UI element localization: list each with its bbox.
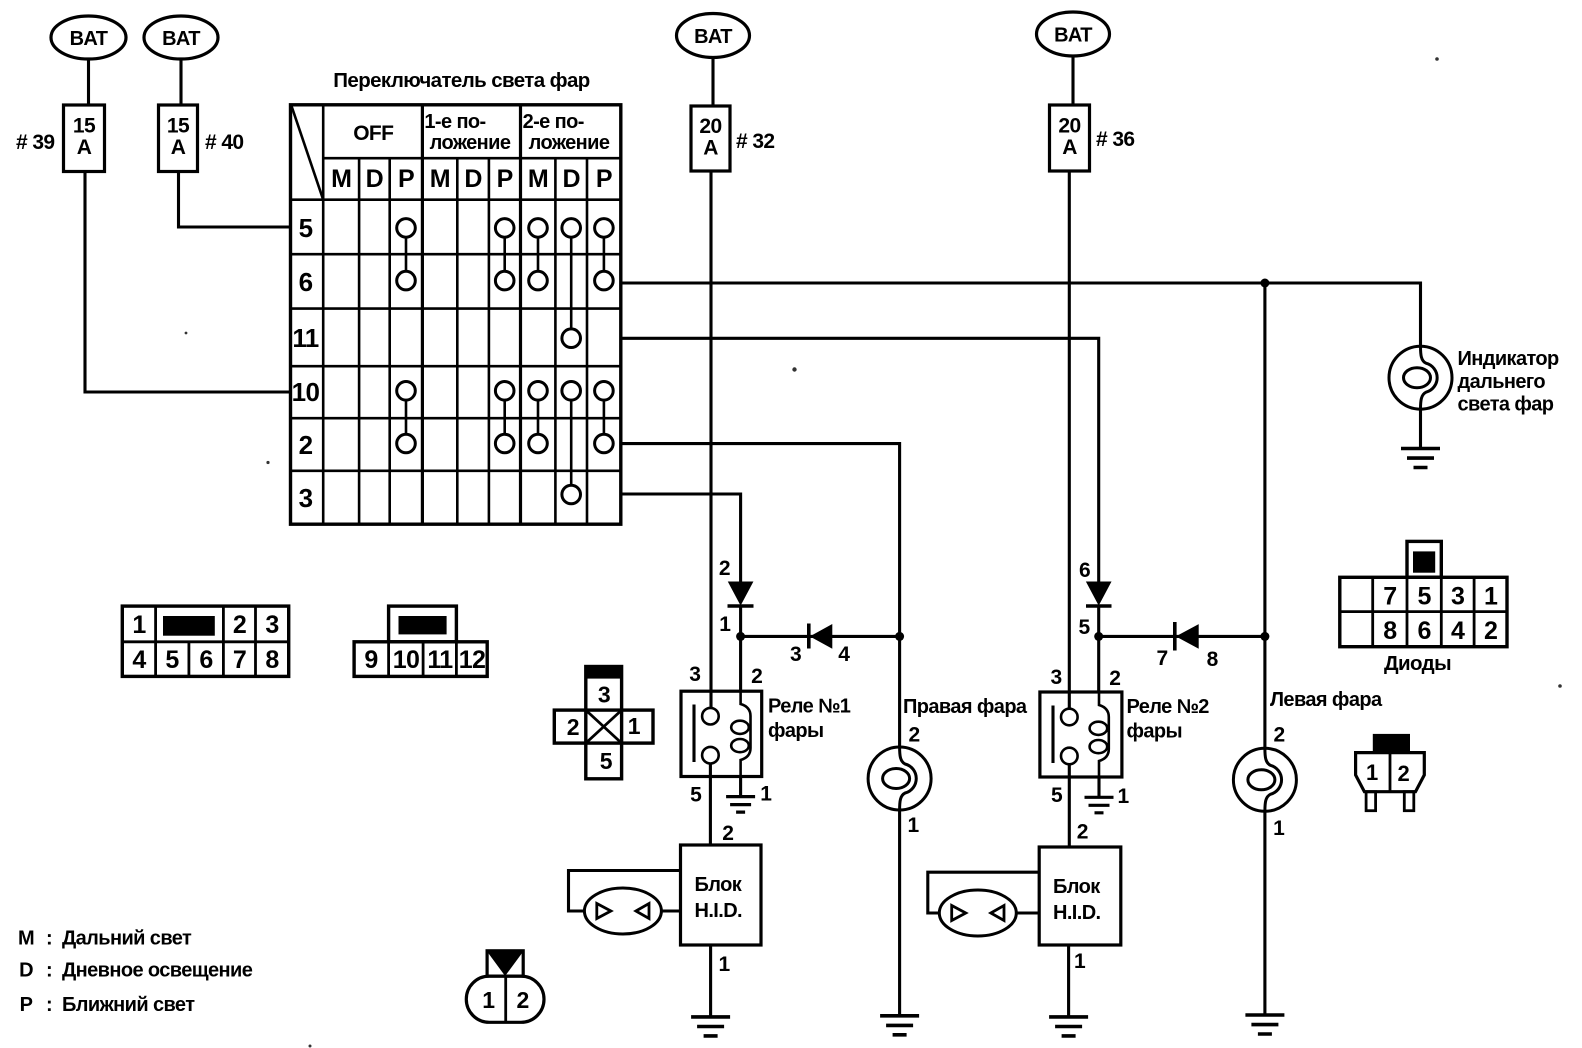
svg-text:10: 10 (393, 646, 420, 674)
svg-text:2: 2 (1077, 821, 1088, 844)
svg-text:# 39: # 39 (16, 131, 54, 154)
node right lamp / diode4 junction (895, 632, 904, 641)
relay R2 contact circles (1061, 709, 1078, 726)
svg-text:2: 2 (1273, 724, 1284, 747)
ground (indicator) (1401, 449, 1440, 468)
svg-text:A: A (77, 136, 92, 159)
HID2 box (1039, 847, 1121, 945)
wire BAT2 to fuse 40 (179, 59, 182, 105)
HID1 burner loop wire (569, 871, 681, 912)
svg-text:1: 1 (1484, 583, 1498, 611)
svg-text:2: 2 (1484, 617, 1497, 645)
svg-text:Левая фара: Левая фара (1270, 689, 1383, 711)
wire row3 to diode 2 and relay1 coil (621, 494, 741, 691)
wire right headlamp to ground (898, 810, 901, 1016)
svg-text:2-е по-: 2-е по- (523, 111, 584, 133)
ground (relay2 coil) (1085, 797, 1114, 813)
svg-text:2: 2 (908, 724, 919, 747)
svg-text:Индикатор: Индикатор (1458, 348, 1560, 370)
svg-text:8: 8 (265, 646, 279, 674)
svg-text:7: 7 (1156, 647, 1167, 670)
svg-text:Переключатель света фар: Переключатель света фар (333, 69, 590, 92)
svg-text::: : (46, 928, 52, 950)
connector A pin numbers (132, 611, 279, 674)
svg-text:5: 5 (299, 213, 313, 243)
svg-text:A: A (703, 137, 718, 160)
svg-text:# 36: # 36 (1096, 128, 1134, 151)
svg-text:H.I.D.: H.I.D. (695, 900, 743, 922)
svg-text:BAT: BAT (162, 28, 200, 50)
wire relay1 coil to ground (739, 777, 742, 797)
diode 6-5 (relay2 coil feed) (1086, 582, 1112, 606)
ground (right headlamp) (880, 1016, 919, 1035)
svg-text:2: 2 (719, 557, 730, 580)
svg-text:фары: фары (768, 720, 824, 742)
svg-text:A: A (171, 136, 186, 159)
HID2 burner bulb (939, 890, 1016, 936)
svg-text:1: 1 (1273, 817, 1285, 840)
svg-text:5: 5 (165, 646, 179, 674)
battery feed BAT2 (144, 16, 218, 59)
svg-text:OFF: OFF (353, 122, 394, 145)
wire BAT3 to fuse 32 (711, 58, 714, 107)
svg-text:фары: фары (1127, 721, 1183, 743)
svg-text:9: 9 (364, 646, 377, 674)
svg-text:P: P (596, 165, 612, 193)
legend M (18, 928, 192, 950)
svg-text:5: 5 (1051, 784, 1063, 807)
svg-text::: : (46, 960, 52, 982)
svg-text:# 40: # 40 (205, 131, 243, 154)
svg-text:1: 1 (1074, 950, 1086, 973)
svg-text:4: 4 (132, 646, 146, 674)
svg-text:7: 7 (233, 646, 246, 674)
svg-text:BAT: BAT (70, 28, 108, 50)
HID1 box (681, 845, 762, 945)
diode 7-8 (horizontal, left lamp to relay2 coil) (1099, 622, 1265, 651)
connector D diodes 8-pin (1340, 541, 1507, 646)
svg-text:M: M (430, 165, 450, 193)
svg-text:D: D (562, 165, 579, 193)
ground (HID1) (691, 1017, 730, 1036)
svg-text:8: 8 (1207, 648, 1219, 671)
svg-text:Диоды: Диоды (1384, 652, 1451, 675)
svg-text:5: 5 (1078, 616, 1090, 639)
contact row3 (562, 485, 581, 504)
HID2 burner loop wire (928, 872, 1039, 913)
switch table frame (291, 105, 621, 524)
svg-text:10: 10 (292, 377, 320, 407)
wire fuse 36 to relay2 pin 3 (1068, 171, 1071, 709)
wire row11 to diode 6 and relay2 coil (621, 338, 1099, 692)
relay R1 box (681, 691, 762, 776)
connector B pin numbers (364, 646, 485, 674)
battery feed BAT1 (51, 16, 126, 59)
relay R1 fixed contact bar (692, 705, 695, 763)
wire left headlamp feed (1263, 283, 1266, 748)
node relay1 coil / diode3 junction (736, 632, 745, 641)
contact links long column D2 (570, 237, 573, 485)
wire HID1 pin1 to ground (709, 945, 712, 1017)
svg-text:3: 3 (1451, 583, 1464, 611)
svg-text:D: D (464, 165, 481, 193)
svg-text:1: 1 (1366, 760, 1378, 785)
contact row11 (562, 329, 581, 348)
svg-text:1-е по-: 1-е по- (424, 111, 485, 133)
svg-text:5: 5 (1418, 583, 1432, 611)
contacts row5 (397, 219, 614, 238)
svg-text:2: 2 (751, 665, 762, 688)
svg-text:8: 8 (1383, 617, 1397, 645)
wire row2 to right lamp (621, 444, 900, 747)
svg-text:# 32: # 32 (736, 130, 774, 153)
HID1 burner bulb (584, 888, 661, 934)
connector E pin numbers (482, 987, 529, 1013)
wire relay1 pin5 to HID1 (709, 764, 712, 846)
svg-text:ложение: ложение (529, 132, 610, 154)
node row6/left lamp junction (1260, 279, 1269, 288)
connector C cross 5-pin (554, 667, 653, 779)
relay R2 fixed contact bar (1051, 706, 1054, 764)
svg-text:2: 2 (722, 822, 733, 845)
left headlamp bulb (1233, 748, 1296, 811)
fuse #40 15A (159, 105, 198, 172)
relay R1 coil (731, 691, 750, 776)
wire BAT4 to fuse 36 (1071, 56, 1074, 105)
svg-text:1: 1 (628, 713, 641, 739)
svg-text:Реле №2: Реле №2 (1127, 696, 1210, 718)
wire fuse 39 to switch row 10 (85, 172, 291, 393)
svg-text::: : (46, 994, 52, 1016)
contacts row6 (397, 271, 614, 290)
svg-text:6: 6 (199, 646, 212, 674)
svg-text:4: 4 (1451, 617, 1465, 645)
svg-text:3: 3 (598, 682, 610, 708)
svg-text:1: 1 (760, 783, 772, 806)
svg-text:Дальний свет: Дальний свет (62, 928, 192, 950)
svg-text:20: 20 (699, 115, 721, 138)
svg-text:A: A (1062, 136, 1077, 159)
svg-text:1: 1 (719, 613, 731, 636)
svg-text:6: 6 (299, 267, 313, 297)
svg-text:15: 15 (167, 115, 190, 138)
svg-text:6: 6 (1079, 559, 1090, 582)
node left lamp / diode8 junction (1260, 632, 1269, 641)
contacts row10 (397, 382, 614, 401)
svg-text:P: P (398, 165, 414, 193)
svg-text:2: 2 (567, 714, 579, 740)
wire row6 to indicator (621, 283, 1421, 346)
svg-text:H.I.D.: H.I.D. (1053, 902, 1101, 924)
wire HID2 pin1 to ground (1067, 945, 1070, 1017)
relay R2 coil (1090, 692, 1109, 777)
connector F 2-pin trapezoid (1356, 734, 1425, 811)
svg-text:6: 6 (1418, 617, 1431, 645)
svg-text:M: M (18, 928, 34, 950)
svg-text:1: 1 (482, 987, 495, 1013)
svg-text:Правая фара: Правая фара (903, 696, 1028, 718)
svg-text:ложение: ложение (430, 132, 511, 154)
connector E 2-pin round (466, 951, 544, 1023)
right headlamp bulb (868, 747, 931, 810)
svg-text:M: M (528, 165, 548, 193)
svg-text:2: 2 (299, 430, 313, 460)
svg-text:Дневное освещение: Дневное освещение (62, 960, 253, 982)
ground (left headlamp) (1245, 1015, 1284, 1034)
svg-text:11: 11 (427, 646, 453, 674)
connector F pin numbers (1366, 760, 1410, 786)
relay R2 box (1040, 692, 1122, 777)
connector C pin numbers (567, 682, 641, 775)
svg-text:Блок: Блок (695, 874, 743, 896)
header M D P row (331, 165, 612, 193)
legend D (19, 960, 253, 982)
svg-text:3: 3 (689, 663, 700, 686)
svg-text:1: 1 (132, 611, 146, 639)
svg-text:5: 5 (600, 748, 613, 774)
legend P (20, 994, 196, 1016)
svg-text:света фар: света фар (1458, 394, 1554, 416)
diode 3-4 (horizontal, right lamp to relay1 coil) (741, 624, 900, 649)
svg-text:D: D (366, 165, 383, 193)
svg-text:2: 2 (1397, 761, 1409, 786)
svg-text:12: 12 (459, 646, 486, 674)
contact links short (406, 237, 604, 434)
svg-text:3: 3 (265, 611, 278, 639)
svg-text:3: 3 (299, 483, 313, 513)
svg-text:1: 1 (1117, 785, 1129, 808)
wire BAT1 to fuse 39 (87, 59, 90, 105)
svg-text:1: 1 (907, 814, 919, 837)
fuse #39 15A (64, 105, 105, 172)
wire left headlamp to ground (1263, 811, 1266, 1015)
connector A 8-pin (122, 606, 288, 676)
fuse #36 20A (1050, 105, 1090, 171)
svg-text:15: 15 (73, 115, 96, 138)
wire fuse 40 to switch row 5 (179, 172, 291, 228)
svg-text:BAT: BAT (1054, 25, 1092, 47)
svg-text:11: 11 (292, 323, 318, 353)
svg-text:7: 7 (1383, 583, 1396, 611)
connector D pin numbers (1383, 583, 1498, 646)
svg-text:4: 4 (838, 643, 850, 666)
svg-text:3: 3 (1050, 666, 1061, 689)
wire fuse 32 to relay1 pin 3 (709, 171, 712, 708)
switch table grid (322, 105, 325, 524)
svg-text:P: P (20, 994, 33, 1016)
wire relay2 pin5 to HID2 (1068, 764, 1071, 847)
diode 2-1 (relay1 coil feed) (728, 582, 754, 606)
wire indicator to ground (1419, 409, 1422, 448)
svg-text:дальнего: дальнего (1458, 371, 1546, 393)
svg-text:2: 2 (233, 611, 246, 639)
svg-text:BAT: BAT (694, 26, 732, 48)
svg-text:M: M (331, 165, 351, 193)
indicator label (1458, 348, 1560, 416)
wire relay2 coil to ground (1097, 777, 1100, 797)
battery feed BAT4 (1037, 12, 1110, 56)
ground (relay1 coil) (726, 797, 755, 813)
svg-text:D: D (19, 960, 33, 982)
svg-text:1: 1 (718, 953, 730, 976)
svg-text:5: 5 (690, 784, 702, 807)
svg-text:Ближний свет: Ближний свет (62, 994, 195, 1016)
fuse #32 20A (691, 106, 730, 171)
svg-text:20: 20 (1058, 115, 1080, 138)
svg-text:2: 2 (1109, 667, 1120, 690)
svg-text:Блок: Блок (1053, 876, 1101, 898)
svg-text:P: P (497, 165, 513, 193)
connector B 4-pin (354, 606, 487, 676)
switch table diagonal (292, 106, 324, 200)
ground (HID2) (1049, 1017, 1088, 1036)
svg-text:2: 2 (516, 987, 528, 1013)
svg-text:Реле №1: Реле №1 (768, 696, 851, 718)
relay R1 contact circles (702, 708, 719, 725)
battery feed BAT3 (677, 14, 750, 58)
svg-text:3: 3 (790, 643, 801, 666)
contacts row2 (397, 434, 614, 453)
node relay2 coil / diode7 junction (1094, 632, 1103, 641)
indicator lamp (1389, 346, 1452, 409)
